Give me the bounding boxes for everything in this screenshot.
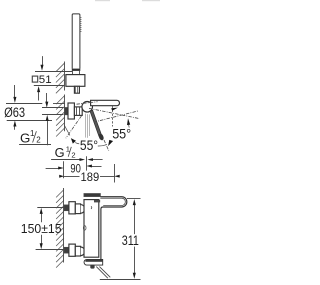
dimension 311 upper arrow [134, 205, 136, 235]
hand shower dark collar [72, 69, 81, 71]
tube lower walls into holder [72, 71, 74, 75]
top union dome [81, 205, 85, 214]
counter arrow right of outlet line [92, 159, 103, 161]
cropped header artifacts [95, 0, 110, 1]
shower holder arm with hose downturn [100, 197, 127, 260]
wall face line (middle) [64, 95, 66, 132]
wall hatching (bottom wall) [56, 190, 64, 268]
lever swing dash-dot (to lower left) [66, 116, 82, 138]
svg-text:150±15: 150±15 [21, 221, 62, 236]
arm root shading [94, 200, 100, 203]
dimension 150 top extension line [37, 207, 64, 209]
nipple dimension upper arrow [46, 93, 48, 103]
lower 55 arc left arrowhead with tail [75, 143, 79, 144]
lower 55 arc right arrowhead [98, 145, 107, 146]
label square symbol [32, 76, 37, 82]
vertical dashed extension under spout [112, 106, 114, 127]
dimension D63 lower arrow [14, 126, 16, 130]
bottom union nipple (dark) [64, 247, 68, 253]
upper 55 leader arrowhead [128, 125, 131, 128]
wall hatching (upper wall) [56, 63, 65, 93]
lever end cap [98, 133, 105, 141]
top union escutcheon [69, 202, 75, 214]
G half nipple dimension bottom line [42, 114, 64, 116]
connector division lines [76, 107, 78, 116]
svg-text:G: G [20, 130, 30, 145]
dimension 51 bottom extension line [34, 85, 64, 87]
svg-text:2: 2 [36, 135, 41, 144]
spout [91, 100, 120, 105]
holder hose stub [74, 86, 79, 93]
label G half (hose outlet) [55, 145, 76, 160]
dimension 189 line right segment [100, 176, 114, 178]
hand shower head ribs [80, 18, 82, 32]
top union nut [75, 204, 80, 214]
arrowhead under spout end [111, 108, 118, 111]
svg-text:G: G [55, 145, 65, 160]
swing dash-dot lower (from ball) [89, 108, 140, 118]
dimension 311 top extension line [127, 198, 141, 200]
label G half (wall thread) [20, 129, 41, 145]
hand shower tube [72, 14, 80, 69]
svg-text:Ø63: Ø63 [4, 105, 25, 121]
body detail ring [83, 226, 86, 230]
bath spout diagonal outer [96, 267, 108, 279]
dimension D63 bottom extension line [7, 120, 52, 122]
dimension D63 upper arrow [14, 85, 16, 98]
dimension 150 bottom extension line [36, 249, 64, 251]
bottom union escutcheon [69, 244, 75, 256]
top union nipple (dark) [64, 205, 68, 211]
body top cap (dark) [84, 194, 100, 197]
wall hatching (middle wall) [56, 96, 65, 137]
ball joint [82, 102, 93, 113]
escutcheon flange [68, 103, 74, 119]
dimension 90 left arrow [46, 168, 60, 170]
svg-text:2: 2 [71, 150, 75, 159]
stray hatch diagonal [64, 125, 70, 135]
svg-text:55°: 55° [80, 138, 98, 153]
bottom union dome [81, 247, 85, 256]
extension line wall face [63, 161, 65, 178]
swing dash-dot upper [94, 111, 139, 122]
connector tube [74, 107, 82, 116]
dimension 51 upper arrow [42, 56, 44, 66]
bath spout diagonal inner [99, 267, 110, 278]
wall face line (upper) [64, 62, 66, 91]
page background [0, 0, 161, 285]
extension line hose outlet [86, 156, 88, 170]
dimension 311 lower arrow [134, 247, 136, 274]
dimension 189 line left segment [64, 176, 80, 178]
wall holder bracket [66, 75, 85, 87]
nipple dimension lower arrow with leader [47, 120, 49, 145]
svg-text:90: 90 [70, 161, 81, 175]
phantom vertical lever lines [86, 114, 90, 138]
svg-text:55°: 55° [112, 127, 131, 142]
leader underline with arrow to outlet line [51, 159, 81, 161]
mixer body [84, 200, 99, 258]
dimension D63 top extension line [6, 103, 42, 105]
G half nipple dimension top line [42, 107, 64, 109]
dimension 51 top extension line [35, 71, 72, 73]
svg-text:51: 51 [39, 74, 52, 86]
svg-text:311: 311 [122, 233, 139, 248]
lever handle (dark) [90, 110, 102, 136]
dimension 51 lower arrow [38, 92, 40, 101]
lever bar (dark) [84, 259, 103, 265]
spout axis dash-dot [77, 102, 98, 105]
arm inner end contour [100, 198, 125, 205]
lever axis dash-dot extension [104, 140, 109, 151]
dimension 150 lower arrow [41, 235, 43, 245]
G half thread nipple (dark) [65, 108, 68, 115]
wall face line (bottom) [63, 188, 65, 263]
extension line spout reach [114, 164, 116, 183]
dimension 90 right arrow [91, 166, 102, 168]
lever tail knob [90, 265, 94, 269]
svg-text:189: 189 [81, 170, 100, 184]
dimension 311 bottom extension line + spout face [100, 279, 141, 281]
logo dot on body [90, 206, 93, 209]
dimension 150 upper arrow [41, 213, 43, 222]
label underline [19, 144, 51, 146]
fraction slash (hose outlet) [68, 147, 71, 157]
bottom union nut [75, 246, 80, 256]
fraction slash [33, 131, 37, 142]
